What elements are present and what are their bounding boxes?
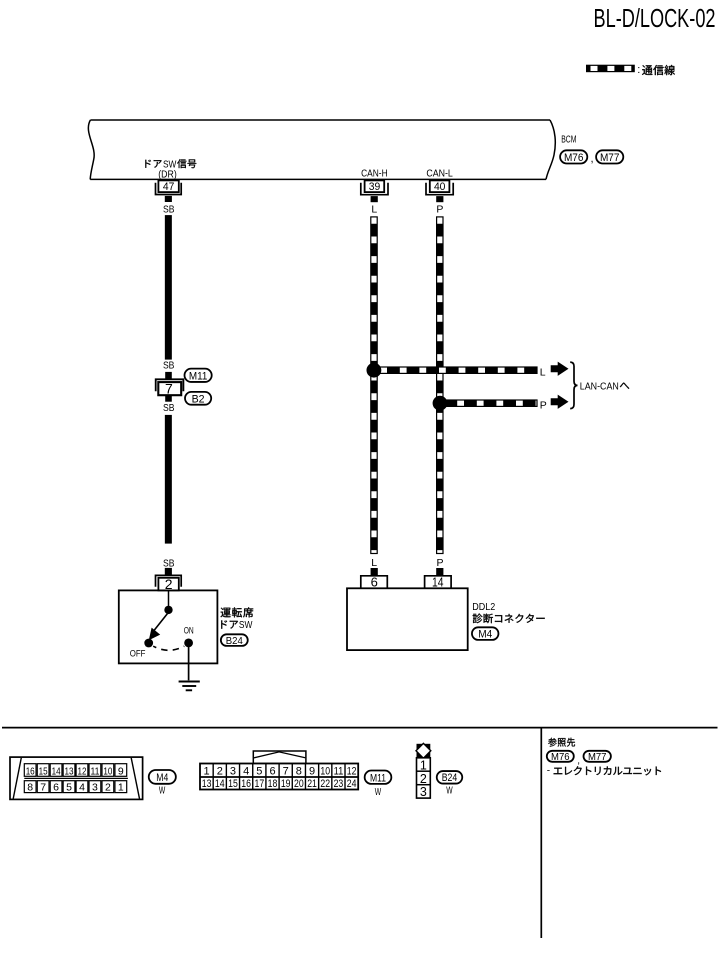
svg-text:(DR): (DR) xyxy=(158,170,177,181)
reference note 参照先 xyxy=(548,738,556,747)
pin 40 (BCM) xyxy=(426,180,453,194)
stub pin 39 xyxy=(371,196,378,202)
connector box DDL2 xyxy=(347,588,468,650)
label LAN-CANへ xyxy=(580,380,629,392)
svg-text:22: 22 xyxy=(320,778,330,790)
svg-text:8: 8 xyxy=(296,765,302,777)
svg-text:W: W xyxy=(375,786,381,798)
svg-text:18: 18 xyxy=(268,778,278,790)
svg-text:2: 2 xyxy=(420,772,427,786)
svg-text:B24: B24 xyxy=(442,772,458,784)
svg-text:CAN-L: CAN-L xyxy=(426,167,453,179)
legend: communication line symbol xyxy=(587,65,635,71)
svg-text:15: 15 xyxy=(228,778,238,790)
svg-text:39: 39 xyxy=(369,181,381,193)
svg-text:14: 14 xyxy=(432,575,444,590)
svg-text:21: 21 xyxy=(307,778,317,790)
svg-text:LAN-CAN: LAN-CAN xyxy=(580,380,619,392)
svg-text:1: 1 xyxy=(420,758,427,772)
wire ON to ground xyxy=(188,647,190,680)
svg-text:6: 6 xyxy=(269,765,275,777)
svg-text:7: 7 xyxy=(40,782,46,794)
svg-text:ON: ON xyxy=(184,626,194,637)
label DDL2 診断コネクター xyxy=(472,601,544,623)
connector face B24 xyxy=(416,743,431,799)
svg-text:M4: M4 xyxy=(478,629,492,641)
stub pin 6 xyxy=(371,568,378,575)
inline connector M11/B2 pin 7 xyxy=(156,379,184,396)
label エレクトリカルユニット xyxy=(547,766,661,777)
svg-text:SB: SB xyxy=(163,558,175,570)
connector M4 oval (DDL2) xyxy=(472,627,499,640)
svg-text:9: 9 xyxy=(118,766,124,778)
wire SB (BCM 47 to connector M11) xyxy=(165,215,172,360)
brace LAN-CAN xyxy=(570,362,577,409)
svg-text:13: 13 xyxy=(202,778,212,790)
svg-text:12: 12 xyxy=(78,766,87,778)
svg-text:M77: M77 xyxy=(588,752,607,763)
svg-text:M4: M4 xyxy=(156,772,168,784)
svg-text:L: L xyxy=(371,203,377,215)
svg-text:14: 14 xyxy=(215,778,225,790)
svg-text:2: 2 xyxy=(217,765,223,777)
svg-text:L: L xyxy=(371,557,377,569)
svg-text:7: 7 xyxy=(165,381,173,397)
svg-text:P: P xyxy=(540,399,547,411)
svg-text:BL-D/LOCK-02: BL-D/LOCK-02 xyxy=(594,5,716,33)
connector face M4 xyxy=(10,757,143,799)
svg-text:3: 3 xyxy=(92,782,98,794)
svg-text:3: 3 xyxy=(230,765,236,777)
svg-text:15: 15 xyxy=(39,766,48,778)
connector face M11 xyxy=(200,751,358,790)
svg-text:BCM: BCM xyxy=(561,135,576,146)
stub above connector xyxy=(165,372,172,379)
svg-text:L: L xyxy=(540,367,546,379)
module BCM (band with torn edges) xyxy=(88,120,555,179)
svg-text:,: , xyxy=(577,755,580,766)
svg-text:W: W xyxy=(446,785,452,797)
separator line xyxy=(2,727,718,729)
connector M77 (ref) xyxy=(584,751,611,762)
svg-text:OFF: OFF xyxy=(130,648,146,659)
connector B2 oval xyxy=(185,392,211,405)
svg-text:M77: M77 xyxy=(600,152,620,164)
legend label 通信線 xyxy=(637,64,675,76)
svg-text:SB: SB xyxy=(163,360,175,372)
connector M76 (BCM) xyxy=(560,150,587,163)
svg-text:-: - xyxy=(547,766,550,777)
svg-text:23: 23 xyxy=(334,778,344,790)
connector M11 oval xyxy=(185,369,212,382)
stub pin 40 xyxy=(436,196,443,202)
svg-text:20: 20 xyxy=(294,778,304,790)
svg-text:4: 4 xyxy=(243,765,249,777)
svg-text:16: 16 xyxy=(26,766,35,778)
connector B24 oval xyxy=(221,634,248,646)
svg-text:6: 6 xyxy=(53,782,59,794)
pin 14 (DDL2) xyxy=(425,575,452,590)
stub pin 14 xyxy=(436,568,443,575)
svg-text:SB: SB xyxy=(163,203,175,215)
arrow P xyxy=(551,395,569,409)
branch wire L to LAN-CAN (dashed) xyxy=(379,367,537,373)
svg-text::: : xyxy=(637,64,640,76)
svg-text:11: 11 xyxy=(90,766,99,778)
connector M4 oval (face) xyxy=(149,770,176,784)
svg-text:M76: M76 xyxy=(551,752,570,763)
label 運転席 ドアSW xyxy=(221,607,254,631)
svg-text:24: 24 xyxy=(347,778,357,790)
label ドアSW信号 (DR) xyxy=(145,159,196,181)
svg-text:P: P xyxy=(436,557,443,569)
stub above pin 2 xyxy=(165,568,172,576)
svg-text:M76: M76 xyxy=(564,152,584,164)
svg-text:7: 7 xyxy=(283,765,289,777)
svg-text:P: P xyxy=(436,203,443,215)
arrow L xyxy=(551,362,569,376)
connector M76 (ref) xyxy=(547,751,574,762)
svg-text:14: 14 xyxy=(52,766,61,778)
svg-text:B24: B24 xyxy=(226,635,243,647)
svg-text:5: 5 xyxy=(256,765,262,777)
svg-text:B2: B2 xyxy=(192,393,205,405)
svg-text:SW: SW xyxy=(239,620,253,631)
svg-text:12: 12 xyxy=(347,765,357,777)
svg-text:1: 1 xyxy=(204,765,210,777)
svg-text:11: 11 xyxy=(334,765,344,777)
svg-text:3: 3 xyxy=(420,785,427,799)
svg-text:2: 2 xyxy=(105,782,111,794)
svg-text:10: 10 xyxy=(320,765,330,777)
connector M11 oval (face) xyxy=(365,771,392,784)
connector B24 oval (face) xyxy=(437,771,463,784)
svg-text:19: 19 xyxy=(281,778,291,790)
svg-text:CAN-H: CAN-H xyxy=(361,167,388,179)
connector M77 (BCM) xyxy=(596,150,623,163)
svg-text:M11: M11 xyxy=(189,370,208,382)
wire P (CAN-L) dashed xyxy=(437,217,443,554)
junction CAN-H xyxy=(367,363,382,378)
wire SB (B2 to door switch) xyxy=(165,415,172,544)
switch box: driver door SW xyxy=(119,590,218,663)
ground xyxy=(179,682,200,691)
svg-text:M11: M11 xyxy=(370,772,386,784)
svg-text:W: W xyxy=(159,785,165,797)
svg-text:13: 13 xyxy=(65,766,74,778)
svg-text:17: 17 xyxy=(254,778,264,790)
svg-text:1: 1 xyxy=(118,782,124,794)
svg-text:8: 8 xyxy=(27,782,33,794)
svg-text:9: 9 xyxy=(309,765,315,777)
pin 39 (BCM) xyxy=(361,180,388,194)
pin 2 (door switch) xyxy=(156,575,182,592)
svg-text:6: 6 xyxy=(371,575,378,590)
pin 6 (DDL2) xyxy=(361,575,388,590)
branch wire P to LAN-CAN (dashed) xyxy=(445,400,537,406)
svg-text:10: 10 xyxy=(103,766,112,778)
svg-text:SB: SB xyxy=(163,402,175,414)
svg-text:DDL2: DDL2 xyxy=(472,601,495,613)
svg-text:4: 4 xyxy=(79,782,85,794)
svg-text:40: 40 xyxy=(434,181,446,193)
svg-text:5: 5 xyxy=(66,782,72,794)
svg-text:47: 47 xyxy=(163,181,175,193)
vertical divider xyxy=(540,728,542,938)
wire L (CAN-H) dashed xyxy=(371,217,377,554)
stub pin 47 xyxy=(165,196,172,202)
switch internals xyxy=(130,590,194,659)
svg-text:2: 2 xyxy=(165,576,173,592)
svg-text:,: , xyxy=(591,153,594,165)
stub below connector xyxy=(165,395,172,402)
svg-text:16: 16 xyxy=(241,778,251,790)
pin 47 (BCM) xyxy=(156,180,182,194)
junction CAN-L xyxy=(433,396,448,411)
